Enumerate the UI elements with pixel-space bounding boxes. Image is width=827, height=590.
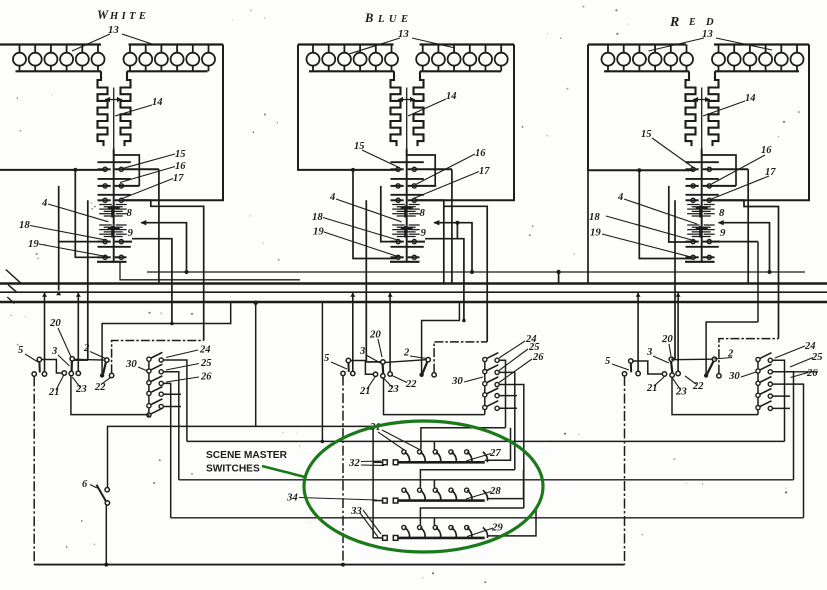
wire: switch 6 to bottom return rail xyxy=(104,505,108,566)
wire feed to row1 contact 3 xyxy=(433,441,435,449)
wire pivot I riser (white controls) xyxy=(102,303,231,373)
svg-text:19: 19 xyxy=(590,227,601,239)
svg-text:18: 18 xyxy=(589,211,600,223)
wire: scene squares column xyxy=(372,462,374,538)
switch 5 blade (red controls) xyxy=(629,359,633,373)
wire switch 5 to contact 23 jumper (white controls) xyxy=(42,360,63,374)
svg-text:8: 8 xyxy=(127,207,133,219)
ganged switch 30 bank (white controls) xyxy=(147,352,164,417)
svg-text:9: 9 xyxy=(720,227,726,239)
switch 6 xyxy=(97,485,110,505)
leader 14 (red) xyxy=(703,101,745,116)
wire: comb wiper hook to 16 right (red) xyxy=(702,148,736,186)
arrow tap of 16-wire onto bus line (white) xyxy=(56,291,61,295)
contact circle 22 partner (red controls) xyxy=(676,293,681,376)
svg-text:5: 5 xyxy=(324,353,329,364)
scene master switch 28 (row 2) xyxy=(383,488,488,503)
white left bank lower bar xyxy=(16,70,102,72)
wire: contact 17 left down to switch 20 (blue) xyxy=(365,200,367,362)
wire 30-bank bottom to contact 23 (blue controls) xyxy=(384,378,485,415)
supply slash arrow 1 xyxy=(6,270,21,284)
svg-text:9: 9 xyxy=(421,227,427,239)
svg-text:25: 25 xyxy=(200,358,212,369)
contact 21 circle left (white controls) xyxy=(32,372,36,376)
svg-text:21: 21 xyxy=(359,386,371,397)
leader 14 (blue) xyxy=(408,99,446,116)
white right bank lower bar xyxy=(127,70,208,72)
leader 17 (white) xyxy=(122,179,173,199)
blue right bank lower bar xyxy=(420,70,501,72)
leader 17 (blue) xyxy=(414,172,480,199)
svg-text:14: 14 xyxy=(152,97,163,108)
wire: comb wiper hook to 16 right (white) xyxy=(114,148,140,186)
leader 24 (white) xyxy=(166,350,198,358)
wire from 30-bank tap 3 (blue controls) xyxy=(499,385,524,509)
switch 3-23 blade (red controls) xyxy=(669,357,674,377)
ganged switch 30 bank (blue controls) xyxy=(483,353,500,415)
wire row2 bar end loop xyxy=(487,470,523,499)
wire into row1 squares xyxy=(373,461,383,463)
leader 18 (white) xyxy=(30,226,106,240)
svg-text:20: 20 xyxy=(49,317,61,329)
red lamp feeder bus (right bank) xyxy=(714,43,809,45)
wire: blue box right edge down to contact 17 wire xyxy=(415,45,514,201)
leader 2 (red) xyxy=(714,358,733,360)
wire from 30-bank tap 1 (white controls) xyxy=(163,360,187,441)
contact circle J (blue controls) xyxy=(432,373,436,377)
leader 3 (red) xyxy=(653,356,669,363)
leader 20 (red) xyxy=(669,344,671,356)
leader 24 (blue) xyxy=(499,341,525,358)
wire: contact 15 right riser down to bus (white) xyxy=(158,169,160,283)
leader 26 (white) xyxy=(166,377,199,382)
leader 21 (blue) xyxy=(367,377,375,389)
supply slash arrow 3 xyxy=(7,297,14,304)
leader 32a xyxy=(361,460,381,463)
leader 16 (red) xyxy=(712,155,766,184)
wire contact 21 drop to return rail (blue controls) xyxy=(342,376,344,565)
wire 18-loop joins I riser (blue) xyxy=(462,319,466,323)
leader 19 (white) xyxy=(39,244,106,257)
wire 18-loop joins I riser (white) xyxy=(170,322,174,326)
svg-text:LUE: LUE xyxy=(377,14,413,25)
wire contact J riser (red controls) xyxy=(719,339,779,374)
wire pivot I riser (red controls) xyxy=(706,322,758,373)
svg-text:5: 5 xyxy=(18,345,23,356)
wire: feeder from left edge to contact 15 left (white) xyxy=(0,169,105,171)
wire: contact 18 right down to master-switch loop (white) xyxy=(132,239,172,324)
wire: red box right edge down to contact 17 wire xyxy=(710,45,809,201)
svg-text:28: 28 xyxy=(489,485,501,497)
leader 19 (red) xyxy=(602,234,694,258)
svg-text:30: 30 xyxy=(451,375,463,387)
leader 32b xyxy=(361,464,384,467)
junction on white feeder xyxy=(73,168,77,172)
scene feed line row 1 xyxy=(187,440,785,442)
wire from 30-bank tap 5 (white controls) xyxy=(163,406,181,408)
svg-text:26: 26 xyxy=(200,372,212,383)
contact circle 22 partner (white controls) xyxy=(76,293,81,376)
scene master switch 29 (row 3) xyxy=(383,525,488,540)
wire into row2 squares xyxy=(373,500,383,502)
wire: contact 17 left down to switch 20 (white) xyxy=(87,200,89,360)
wire: dimmer wiper output to collector line W1 (white) xyxy=(140,220,188,274)
leader 3 (blue) xyxy=(366,355,381,363)
svg-text:20: 20 xyxy=(661,333,673,345)
scene feed line row 3 xyxy=(171,517,804,519)
svg-text:8: 8 xyxy=(420,207,426,219)
leader 33a xyxy=(363,510,381,534)
leader 5 (blue) xyxy=(331,362,347,369)
wire contact 21 drop to return rail (white controls) xyxy=(33,376,35,564)
red left bank lower bar xyxy=(604,70,689,72)
wire: contact 16 left to contact 18 left (blue) xyxy=(381,186,396,242)
wire row3 bar end loop xyxy=(487,508,536,536)
leader 4 (red) xyxy=(624,199,697,224)
wire from 30-bank tap 4 (red controls) xyxy=(772,395,790,397)
wire from 30-bank tap 4 (blue controls) xyxy=(499,395,517,397)
svg-text:26: 26 xyxy=(532,352,544,363)
wire: contact 16 left to contact 18 left (red) xyxy=(669,186,691,242)
switch 2 blade (blue controls) xyxy=(419,358,430,377)
leader 2 (blue) xyxy=(410,356,427,359)
leader 21 (red) xyxy=(654,377,664,386)
svg-text:32: 32 xyxy=(348,457,360,469)
svg-text:19: 19 xyxy=(28,238,39,250)
wire from 30-bank tap 4 (white controls) xyxy=(163,393,181,395)
wire tap 25 extension (red) xyxy=(775,371,818,373)
leader 22 (blue) xyxy=(392,376,407,383)
leader 25 (red) xyxy=(790,358,813,368)
leader 27 xyxy=(466,454,491,462)
wire E to H (red controls) xyxy=(674,358,713,361)
svg-text:19: 19 xyxy=(313,226,324,238)
wire: W1 tap to bus at centre xyxy=(556,270,560,284)
leader 30 (red) xyxy=(741,372,756,377)
leader 21 (white) xyxy=(56,376,64,391)
contact circle under bus (red controls) xyxy=(636,293,641,376)
wire feed to row3 contact 3 xyxy=(433,518,435,525)
wire 30-bank bottom to contact 23 (white controls) xyxy=(71,376,149,415)
svg-text:24: 24 xyxy=(804,341,816,352)
svg-text:R: R xyxy=(669,15,679,30)
svg-text:14: 14 xyxy=(745,93,756,104)
leader 33b xyxy=(360,513,378,537)
wire: junction down to bottom contact 19 left (blue) xyxy=(353,170,396,259)
svg-text:4: 4 xyxy=(617,192,623,203)
wire from 30-bank tap 2 (red controls) xyxy=(772,372,793,480)
junction scene feed xyxy=(321,440,325,444)
wire contact J riser (blue controls) xyxy=(434,342,487,373)
switch 3-23 blade (white controls) xyxy=(69,357,74,376)
svg-text:15: 15 xyxy=(641,129,652,140)
wire contact 21 drop to return rail (red controls) xyxy=(624,376,626,565)
blue lamp feeder bus (left bank) xyxy=(298,43,394,45)
contact circle under bus (white controls) xyxy=(42,293,47,376)
leader 25 (white) xyxy=(166,364,199,371)
wire: contact 15 right riser down to bus (red) xyxy=(747,169,749,283)
svg-text:18: 18 xyxy=(312,211,323,223)
svg-text:27: 27 xyxy=(489,447,501,459)
wire contact J riser (white controls) xyxy=(112,341,204,374)
wire: red box left edge down to feeder xyxy=(588,45,693,171)
junction blue B drop on rail xyxy=(341,563,345,567)
switch 3-23 blade (blue controls) xyxy=(381,360,385,378)
leader 18 (blue) xyxy=(323,218,398,241)
svg-text:30: 30 xyxy=(125,358,137,370)
contact 21 circle left (red controls) xyxy=(622,372,626,376)
svg-text:3: 3 xyxy=(359,346,365,357)
leader 22 (white) xyxy=(101,378,111,385)
wire switch 5 to contact 23 jumper (blue controls) xyxy=(351,361,374,375)
leader 14 (white) xyxy=(115,105,152,116)
wire E to H (white controls) xyxy=(74,358,104,361)
leader 29 xyxy=(467,528,493,537)
leader 25 (blue) xyxy=(499,349,528,371)
leader 15 (blue) xyxy=(362,150,399,168)
svg-text:30: 30 xyxy=(728,370,740,382)
leader 15 (red) xyxy=(652,138,694,168)
svg-text:26: 26 xyxy=(806,368,818,379)
lamps 13 (red, left bank of six) xyxy=(602,45,694,72)
svg-text:3: 3 xyxy=(51,346,57,357)
main bus line 3 xyxy=(0,301,827,303)
svg-text:17: 17 xyxy=(479,166,490,177)
wire feed to row2 contact 3 xyxy=(433,480,435,488)
leader lines from 13 to white lamp banks xyxy=(72,34,152,51)
leader 23 (white) xyxy=(72,377,80,387)
contact 21 circle (red controls) xyxy=(662,372,666,376)
svg-text:18: 18 xyxy=(19,219,30,231)
leader 26 (blue) xyxy=(499,359,532,383)
lamps 13 (red, right bank of six) xyxy=(712,45,804,72)
wire: dimmer wiper output to collector line W1 (red) xyxy=(718,220,772,274)
bottom return rail xyxy=(34,564,624,566)
wire from 30-bank tap 3 (red controls) xyxy=(772,384,803,518)
contact circle 22 partner (blue controls) xyxy=(388,293,393,376)
wire: junction down to bottom contact 19 left (red) xyxy=(639,170,691,258)
svg-text:24: 24 xyxy=(199,345,211,356)
leader lines from 13 to blue lamp banks xyxy=(350,38,456,54)
leader 2 (white) xyxy=(90,352,106,359)
leader 19 (blue) xyxy=(324,232,399,257)
lamps 13 (blue, right bank of six) xyxy=(416,45,508,72)
junction on blue feeder xyxy=(351,168,355,172)
leader 24 (red) xyxy=(775,346,805,358)
white lamp feeder bus (right bank) xyxy=(129,43,224,45)
leader 31a xyxy=(378,432,404,450)
blue left bank lower bar xyxy=(309,70,394,72)
svg-text:2: 2 xyxy=(83,343,90,354)
blue lamp feeder bus (right bank) xyxy=(420,43,515,45)
svg-text:20: 20 xyxy=(369,329,381,341)
wire from 30-bank tap 2 (blue controls) xyxy=(499,372,515,469)
leader 23 (blue) xyxy=(384,378,393,387)
collector line W1 across figure xyxy=(147,271,805,273)
contact circle J (white controls) xyxy=(109,373,113,377)
wire: contact 18 right down to master-switch loop (blue) xyxy=(425,223,464,321)
wire: red box left edge continues to bus xyxy=(587,170,589,283)
wire: contact 17 right to switch-2 contact loop (blue) xyxy=(444,200,487,342)
leader 4 (white) xyxy=(48,204,108,222)
svg-text:B: B xyxy=(364,11,373,25)
svg-text:15: 15 xyxy=(175,149,186,160)
wire switch 5 to contact 23 jumper (red controls) xyxy=(633,361,662,374)
wire: comb wiper hook to 16 right (blue) xyxy=(407,148,436,186)
leader 5 (white) xyxy=(25,354,38,362)
supply slash arrow 2 xyxy=(8,285,17,293)
leader 16 (white) xyxy=(120,167,175,183)
svg-text:W: W xyxy=(97,8,109,22)
dimmer contact combs 14 (blue) xyxy=(391,71,424,152)
wire: contact 17 right to switch-2 contact loop (red) xyxy=(744,200,779,338)
main bus line 2 xyxy=(0,291,827,293)
junction on red feeder xyxy=(637,168,641,172)
collector line W2 (short) xyxy=(120,262,300,280)
wire: contact 18 right down to switch-2 wire (red) xyxy=(710,242,758,322)
wire: dimmer wiper output to collector line W1 (blue) xyxy=(433,220,474,274)
wire from 30-bank tap 1 (red controls) xyxy=(772,360,784,441)
svg-text:SWITCHES: SWITCHES xyxy=(206,464,260,475)
svg-text:HITE: HITE xyxy=(109,11,149,22)
svg-text:6: 6 xyxy=(82,479,88,490)
svg-text:9: 9 xyxy=(128,227,134,239)
contact circle under bus (blue controls) xyxy=(350,293,355,376)
svg-text:23: 23 xyxy=(387,383,399,395)
svg-text:E: E xyxy=(688,17,702,28)
ganged switch 30 bank (red controls) xyxy=(756,353,773,415)
green leader from label to ellipse xyxy=(262,466,306,478)
wire pivot I riser (blue controls) xyxy=(422,303,460,373)
green highlight ellipse around scene master switches xyxy=(304,421,543,552)
wire from 30-bank tap 5 (blue controls) xyxy=(499,407,517,409)
svg-text:5: 5 xyxy=(605,356,610,367)
dimmer contact stack with contacts 15,16,17 and resistance 8,9 (red) xyxy=(685,150,748,262)
lamps 13 (white, left bank of six) xyxy=(13,45,105,72)
leader 5 (red) xyxy=(612,364,629,370)
leader 30 (white) xyxy=(138,367,148,371)
leader 16 (blue) xyxy=(417,154,476,184)
wire: contact 15 right riser down to bus (blue) xyxy=(451,169,453,283)
white lamp feeder bus (left bank) xyxy=(0,43,101,45)
leader 15 (white) xyxy=(123,154,176,169)
switch 5 blade (white controls) xyxy=(37,357,41,372)
wire: junction down to bottom contact 19 left (white) xyxy=(75,170,103,257)
leader lines from 13 to red lamp banks xyxy=(649,38,773,51)
dimmer contact stack with contacts 15,16,17 and resistance 8,9 (white) xyxy=(97,150,159,262)
leader 18 (red) xyxy=(606,216,694,241)
dimmer contact stack with contacts 15,16,17 and resistance 8,9 (blue) xyxy=(390,150,452,262)
svg-text:23: 23 xyxy=(75,383,87,395)
svg-text:16: 16 xyxy=(175,161,186,172)
wire: white box right edge from lamp bus down to contact 17 wire xyxy=(122,45,223,201)
wire: contact 17 right to switch-2 contact loop (white) xyxy=(151,200,204,340)
leader 20 (white) xyxy=(58,328,71,357)
svg-text:2: 2 xyxy=(403,348,410,359)
leader 30 (blue) xyxy=(464,377,483,382)
scene master switch 27 (row 1) xyxy=(383,450,488,465)
leader 17 (red) xyxy=(712,176,770,199)
wire feed to row3 contact 2 xyxy=(420,508,523,525)
wire E to H (blue controls) xyxy=(385,360,426,363)
contact 21 circle (white controls) xyxy=(62,371,66,375)
svg-text:22: 22 xyxy=(94,382,106,393)
wire into row3 squares xyxy=(373,537,383,539)
wire: switch 6 riser and link to master squares xyxy=(108,426,374,487)
leader 20 (blue) xyxy=(378,339,382,357)
lamps 13 (blue, left bank of six) xyxy=(307,45,399,72)
svg-text:4: 4 xyxy=(41,198,47,209)
svg-text:17: 17 xyxy=(173,173,184,184)
wire feed to row1 contact 2 xyxy=(421,428,506,450)
svg-text:8: 8 xyxy=(719,207,725,219)
junction bus to switch-6 link xyxy=(254,301,258,427)
dimmer contact combs 14 (white) xyxy=(98,71,131,152)
svg-text:16: 16 xyxy=(475,148,486,159)
red lamp feeder bus (left bank) xyxy=(588,43,686,45)
scene feed line row 2 xyxy=(179,479,794,481)
svg-text:33: 33 xyxy=(350,505,362,517)
wire row1 bar end loop xyxy=(485,428,511,461)
wire from 30-bank tap 1 (blue controls) xyxy=(499,360,505,427)
contact 21 circle left (blue controls) xyxy=(341,371,345,375)
wire: contact 17 left down to switch 20 (red) xyxy=(674,200,676,359)
wire from 30-bank tap 2 (white controls) xyxy=(163,372,179,480)
leader 4 (blue) xyxy=(336,199,402,222)
svg-text:23: 23 xyxy=(675,386,687,398)
lamps 13 (white, right bank of six) xyxy=(124,45,216,72)
leader 23 (red) xyxy=(673,379,680,390)
switch 5 blade (blue controls) xyxy=(346,358,350,372)
wire: contact 16 left to contact 18 left (white) xyxy=(59,186,103,242)
wire 30-bank bottom to contact 23 (red controls) xyxy=(672,377,758,414)
svg-text:22: 22 xyxy=(405,379,417,390)
svg-text:14: 14 xyxy=(446,91,457,102)
wire from 30-bank tap 3 (white controls) xyxy=(163,383,171,517)
svg-text:21: 21 xyxy=(48,387,60,398)
main bus line 1 xyxy=(0,282,827,284)
dimmer contact combs 14 (red) xyxy=(686,71,719,152)
svg-text:SCENE MASTER: SCENE MASTER xyxy=(206,450,288,461)
wire: bus riser to scene feed line (between 30-bank and scene) xyxy=(321,303,323,441)
leader 26 (red) xyxy=(791,373,809,378)
leader 6 xyxy=(90,485,97,489)
leader 31b xyxy=(382,430,420,450)
contact 21 circle (blue controls) xyxy=(373,372,377,376)
switch 2 blade (red controls) xyxy=(704,357,717,378)
contact circle J (red controls) xyxy=(717,374,721,378)
svg-text:16: 16 xyxy=(761,145,772,156)
svg-text:34: 34 xyxy=(286,492,298,504)
wire: blue box left edge down to feeder xyxy=(298,45,398,170)
wire feed to row2 contact 2 xyxy=(420,470,514,488)
red right bank lower bar xyxy=(715,70,799,72)
leader 28 xyxy=(466,492,491,500)
svg-text:D: D xyxy=(705,17,714,28)
wire from 30-bank tap 5 (red controls) xyxy=(772,407,790,409)
svg-text:4: 4 xyxy=(329,192,335,203)
leader 22 (red) xyxy=(685,376,696,384)
leader 3 (white) xyxy=(58,355,70,366)
svg-text:3: 3 xyxy=(646,347,652,358)
switch 2 blade (white controls) xyxy=(100,358,109,378)
leader 34 xyxy=(299,498,377,501)
svg-text:29: 29 xyxy=(491,522,503,534)
